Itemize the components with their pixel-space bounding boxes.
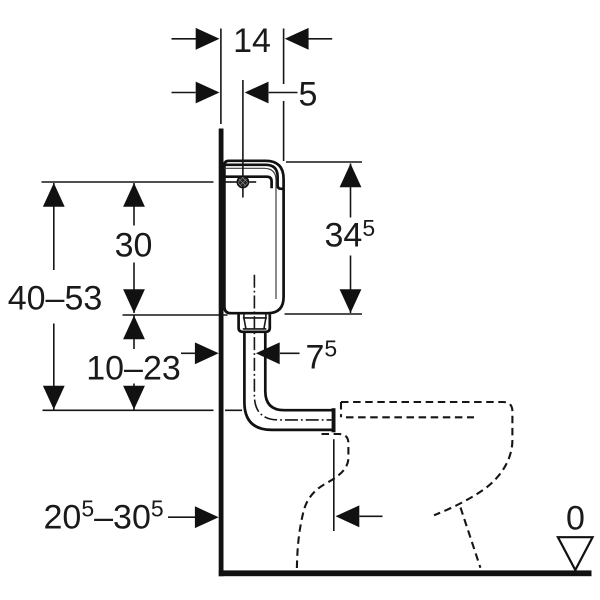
dimension 20.5-30.5 — [44, 496, 219, 537]
flush valve neck — [239, 314, 270, 332]
flush pipe inner edge — [265, 333, 332, 410]
svg-text:14: 14 — [233, 22, 271, 60]
svg-text:30: 30 — [115, 227, 153, 265]
flush knob centerline — [231, 80, 257, 198]
dimension 10-23 — [86, 316, 181, 410]
svg-text:10–23: 10–23 — [86, 350, 181, 388]
toilet pedestal rear edge (dashed) — [461, 508, 481, 568]
svg-text:205–305: 205–305 — [44, 496, 164, 537]
cistern tank outline — [224, 161, 283, 313]
dimension 14 extension line at cistern front — [283, 29, 285, 162]
dimension 34.5 reference line top — [286, 161, 362, 163]
flush pipe end cap — [332, 408, 336, 432]
flush knob — [226, 166, 260, 197]
flush pipe outer edge — [244, 333, 332, 430]
dimension arrow at toilet connection — [336, 505, 383, 527]
wall — [219, 129, 224, 577]
svg-text:0: 0 — [566, 500, 585, 538]
wall face extension line (top) — [220, 29, 222, 125]
dimension 14 — [172, 22, 333, 60]
dimension 34.5 — [325, 164, 376, 314]
dimension 5 — [172, 76, 318, 114]
cistern lid bottom edge — [224, 165, 283, 189]
toilet seat lower line (dashed) — [346, 416, 474, 418]
floor — [219, 570, 592, 576]
svg-text:40–53: 40–53 — [8, 280, 103, 318]
dimension 34.5 reference line bottom — [285, 313, 363, 315]
flush valve inner detail — [243, 314, 267, 329]
cistern lid seam thin line — [224, 168, 276, 299]
datum triangle — [558, 537, 593, 570]
toilet connection reference line — [333, 439, 335, 531]
dimension 7.5 — [181, 336, 337, 377]
flush pipe centerline — [254, 275, 331, 420]
toilet rim outline (dashed) — [341, 402, 512, 515]
left reference line top (at knob level) — [42, 181, 232, 183]
toilet rim left edge (dashed) — [340, 402, 342, 417]
svg-text:5: 5 — [299, 76, 318, 114]
cistern rim line — [224, 177, 271, 189]
left reference line middle (at tank bottom) — [123, 314, 228, 316]
datum 0 label — [566, 500, 585, 538]
toilet inlet boss and pedestal front (dashed) — [297, 434, 349, 568]
dimension 30 — [115, 183, 153, 313]
left reference line bottom (at pipe top level) — [43, 409, 243, 411]
dimension 40-53 — [8, 183, 103, 410]
